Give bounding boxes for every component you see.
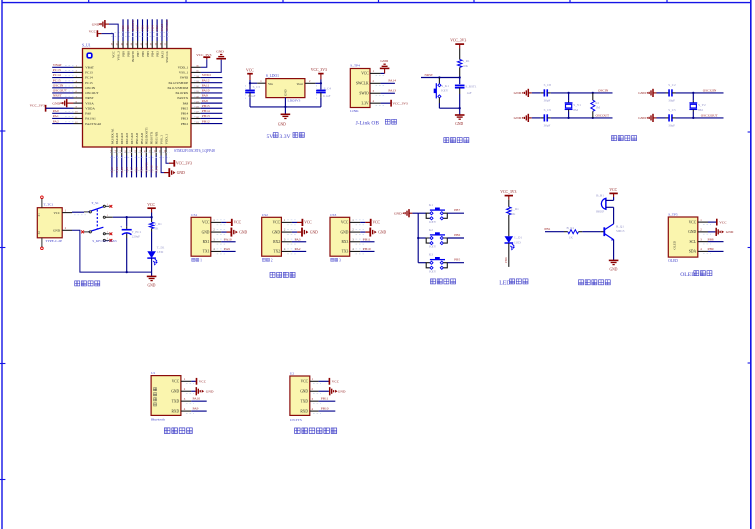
gnd power port at mcu top pin VSS_3 bbox=[92, 20, 118, 41]
svg-text:PB3: PB3 bbox=[155, 25, 159, 31]
capacitor S_C8 bbox=[532, 83, 551, 102]
vcc_3v3 power port LDO output bbox=[311, 68, 327, 83]
wire key common rail bbox=[417, 213, 419, 263]
svg-text:U2: U2 bbox=[290, 372, 294, 376]
svg-text:GND: GND bbox=[272, 230, 280, 234]
svg-text:RX1: RX1 bbox=[203, 240, 210, 244]
svg-text:J-Link OB: J-Link OB bbox=[356, 121, 380, 127]
vcc power port LDO input bbox=[246, 69, 254, 84]
svg-text:GND: GND bbox=[514, 91, 522, 95]
svg-text:PB11: PB11 bbox=[154, 165, 158, 172]
svg-text:BOOT1: BOOT1 bbox=[144, 162, 148, 173]
svg-text:S_K1: S_K1 bbox=[441, 84, 449, 88]
svg-text:S_TP5: S_TP5 bbox=[668, 213, 678, 217]
connector CS3 bbox=[330, 213, 364, 263]
svg-text:Vout: Vout bbox=[297, 82, 303, 86]
svg-text:VSSA: VSSA bbox=[85, 101, 94, 105]
svg-text:S_C4: S_C4 bbox=[324, 86, 332, 90]
svg-text:1: 1 bbox=[200, 259, 202, 263]
svg-text:PA10: PA10 bbox=[193, 397, 201, 401]
svg-text:CS1: CS1 bbox=[191, 213, 197, 217]
svg-text:VCC_3V3: VCC_3V3 bbox=[30, 104, 45, 108]
svg-text:GND: GND bbox=[177, 171, 185, 175]
svg-text:L_R1: L_R1 bbox=[511, 207, 519, 211]
svg-text:B_R1: B_R1 bbox=[567, 226, 575, 230]
svg-text:GND: GND bbox=[147, 284, 155, 288]
svg-text:1K: 1K bbox=[154, 227, 159, 231]
svg-text:GND: GND bbox=[239, 230, 247, 234]
capacitor S_C4 0.1uF bbox=[316, 83, 331, 107]
svg-text:PA3: PA3 bbox=[110, 167, 114, 173]
gnd power port oled pin2 bbox=[708, 228, 734, 236]
wire PA2 CS2 pin4 bbox=[292, 247, 306, 251]
svg-text:VCC: VCC bbox=[172, 380, 180, 384]
svg-text:PA3: PA3 bbox=[295, 237, 301, 241]
buzzer B_B1 BEEP bbox=[596, 194, 613, 214]
resistor R2 1M bbox=[591, 93, 600, 118]
gnd power port bluetooth pin2 bbox=[191, 387, 214, 395]
wire typec vcc to switch bbox=[72, 212, 89, 215]
svg-text:VSS_1: VSS_1 bbox=[160, 135, 164, 145]
connector T_TC1 TYPE-C bbox=[37, 196, 72, 250]
svg-text:NRST: NRST bbox=[425, 73, 433, 77]
connector U2 voice bbox=[290, 372, 321, 422]
mcu top net wires bbox=[111, 19, 170, 41]
svg-text:3.3V: 3.3V bbox=[362, 101, 369, 105]
wire PB10 CS3 pin4 bbox=[360, 247, 374, 251]
wire typec gnd to ground rail bbox=[72, 230, 152, 273]
svg-text:KEY: KEY bbox=[429, 245, 437, 249]
svg-text:OSCIN: OSCIN bbox=[85, 86, 96, 90]
pushbutton K1 KEY bbox=[418, 203, 464, 224]
crystal S_Y2 8M bbox=[689, 93, 706, 118]
svg-text:PB0: PB0 bbox=[135, 167, 139, 173]
svg-text:VCC: VCC bbox=[301, 380, 309, 384]
svg-text:B_B1: B_B1 bbox=[596, 194, 604, 198]
mcu left net wires bbox=[52, 63, 73, 124]
mcu U1 pins and pin numbers bbox=[74, 41, 201, 156]
svg-text:VCC: VCC bbox=[361, 72, 369, 76]
svg-text:VCC_3V3: VCC_3V3 bbox=[176, 162, 192, 166]
svg-text:TXD: TXD bbox=[301, 399, 309, 403]
svg-text:VBAT: VBAT bbox=[53, 63, 63, 67]
svg-text:PA7/AD: PA7/AD bbox=[130, 133, 134, 145]
svg-text:CS2: CS2 bbox=[262, 213, 268, 217]
svg-text:PB2/BOOT1: PB2/BOOT1 bbox=[145, 127, 149, 145]
wire OSC32IN bbox=[676, 88, 724, 94]
svg-text:VCC: VCC bbox=[689, 220, 697, 224]
gnd power port CS3 pin2 bbox=[360, 228, 386, 237]
svg-text:GND: GND bbox=[171, 390, 179, 394]
svg-text:PA4/AD: PA4/AD bbox=[115, 133, 119, 145]
mcu right net wires bbox=[194, 73, 222, 123]
svg-text:RXD: RXD bbox=[300, 409, 308, 413]
svg-text:SWCLK: SWCLK bbox=[356, 82, 369, 86]
svg-text:VCC: VCC bbox=[53, 211, 60, 215]
wire PA9 bluetooth pin4 bbox=[191, 406, 207, 411]
svg-text:OSCOUT: OSCOUT bbox=[53, 89, 68, 93]
wire PB10 voice pin4 bbox=[319, 406, 336, 411]
vcc_3v3 power port reset bbox=[450, 38, 466, 48]
svg-text:PA10: PA10 bbox=[202, 89, 210, 93]
svg-text:PB6: PB6 bbox=[141, 51, 145, 57]
wire OSCOUT bbox=[551, 113, 613, 119]
wire OSC32OUT bbox=[676, 113, 724, 119]
svg-text:PB1/AD: PB1/AD bbox=[140, 132, 144, 144]
svg-text:L_D1: L_D1 bbox=[514, 236, 522, 240]
svg-text:PC13: PC13 bbox=[85, 71, 93, 75]
svg-text:LED: LED bbox=[499, 280, 510, 286]
svg-text:TX3: TX3 bbox=[342, 250, 349, 254]
gnd power port J-Link pin1 bbox=[380, 59, 390, 73]
resistor B_R1 1K bbox=[564, 226, 600, 239]
svg-text:GND: GND bbox=[726, 230, 734, 234]
svg-text:PC13: PC13 bbox=[53, 68, 61, 72]
svg-text:PA0: PA0 bbox=[85, 112, 91, 116]
svg-text:OSC32IN: OSC32IN bbox=[703, 88, 717, 92]
svg-text:PB15: PB15 bbox=[202, 104, 210, 108]
svg-text:PC15: PC15 bbox=[85, 81, 93, 85]
svg-text:T_TC1: T_TC1 bbox=[44, 203, 54, 207]
svg-text:PB9: PB9 bbox=[121, 25, 125, 31]
connector S_TP4 J-Link bbox=[350, 64, 384, 113]
svg-text:SWIO: SWIO bbox=[359, 92, 369, 96]
svg-text:+: + bbox=[120, 225, 122, 229]
wire led net PB0 bbox=[504, 243, 509, 267]
svg-text:PB7: PB7 bbox=[136, 25, 140, 31]
svg-text:PA6: PA6 bbox=[125, 167, 129, 173]
vcc power port voice pin1 bbox=[319, 378, 340, 385]
svg-text:VCC: VCC bbox=[332, 380, 340, 384]
svg-text:VCC: VCC bbox=[609, 188, 617, 192]
svg-text:PB14: PB14 bbox=[202, 109, 210, 113]
wire PB11 CS3 pin3 bbox=[360, 237, 374, 241]
gnd power port crystal cap bottom bbox=[514, 114, 532, 122]
regulator U S_LDO1 bbox=[266, 74, 305, 102]
title led circuit bbox=[499, 279, 528, 286]
wire PA13 J-Link pin3 bbox=[381, 88, 397, 93]
svg-text:PA1: PA1 bbox=[53, 114, 59, 118]
capacitor T_EC1 220uF polarized bbox=[120, 217, 141, 272]
switch T_S1 bbox=[81, 201, 117, 243]
svg-text:RX3: RX3 bbox=[342, 240, 349, 244]
gnd power port crystal cap top bbox=[638, 89, 656, 97]
svg-text:PA6/AD: PA6/AD bbox=[125, 133, 129, 145]
vcc_3v3 power port J-Link pin4 bbox=[381, 100, 408, 107]
svg-text:OLED: OLED bbox=[680, 272, 695, 278]
svg-text:1M: 1M bbox=[595, 106, 600, 110]
svg-text:VCC: VCC bbox=[112, 50, 116, 58]
svg-text:BEEP: BEEP bbox=[596, 210, 604, 214]
connector CS1 bbox=[191, 213, 225, 263]
wire PA14 J-Link pin2 bbox=[381, 78, 397, 83]
svg-text:VCC: VCC bbox=[234, 221, 242, 225]
mcu U1 pin names bbox=[85, 50, 189, 144]
svg-text:PB1: PB1 bbox=[140, 167, 144, 173]
svg-text:8M: 8M bbox=[573, 108, 578, 112]
svg-text:GND: GND bbox=[378, 230, 386, 234]
svg-text:S_C3: S_C3 bbox=[253, 85, 261, 89]
svg-text:2: 2 bbox=[271, 259, 273, 263]
svg-text:GND: GND bbox=[52, 101, 60, 105]
gnd power port at mcu pin VSS_1 right bbox=[201, 50, 226, 73]
resistor S_R1 10K bbox=[458, 49, 470, 78]
title 5V to 3.3V circuit bbox=[267, 133, 305, 140]
svg-text:VCC: VCC bbox=[719, 220, 727, 224]
svg-text:PB3: PB3 bbox=[156, 51, 160, 57]
svg-text:PB13: PB13 bbox=[181, 117, 189, 121]
svg-text:VCC_3V3: VCC_3V3 bbox=[393, 101, 408, 105]
svg-text:PA1/A1: PA1/A1 bbox=[85, 117, 96, 121]
svg-text:PA9: PA9 bbox=[202, 94, 208, 98]
svg-text:PB4: PB4 bbox=[151, 51, 155, 57]
wire OSCIN bbox=[551, 88, 613, 94]
svg-text:0.1uF: 0.1uF bbox=[248, 94, 256, 98]
title serial circuit bbox=[270, 272, 295, 277]
gnd power port crystal cap bottom bbox=[638, 114, 656, 122]
svg-text:VCC: VCC bbox=[373, 221, 381, 225]
svg-text:LINK: LINK bbox=[350, 109, 359, 113]
svg-text:10K: 10K bbox=[462, 64, 468, 68]
svg-text:PA8: PA8 bbox=[183, 101, 189, 105]
svg-text:K1: K1 bbox=[429, 203, 433, 207]
svg-text:Vin: Vin bbox=[268, 82, 273, 86]
gnd power port buzzer bbox=[609, 260, 619, 271]
svg-text:PA7: PA7 bbox=[130, 167, 134, 173]
title buzzer circuit bbox=[579, 280, 611, 285]
svg-text:CS3: CS3 bbox=[330, 213, 336, 217]
svg-text:VCC: VCC bbox=[199, 380, 207, 384]
svg-text:GND: GND bbox=[514, 116, 522, 120]
title reset circuit bbox=[444, 138, 469, 143]
svg-text:S_Y1: S_Y1 bbox=[573, 103, 581, 107]
svg-text:PA10: PA10 bbox=[224, 237, 232, 241]
wire PB11 voice pin3 bbox=[319, 397, 336, 402]
wire PA9 CS1 pin4 bbox=[221, 247, 235, 251]
svg-text:VCC: VCC bbox=[304, 221, 312, 225]
svg-text:PB6: PB6 bbox=[454, 233, 460, 237]
wire NRST bbox=[421, 73, 461, 79]
svg-text:OSCOUT: OSCOUT bbox=[596, 113, 610, 117]
svg-text:PB7: PB7 bbox=[454, 208, 460, 212]
svg-text:PB10: PB10 bbox=[363, 247, 371, 251]
mcu U1 STM32F103C8T6 body bbox=[82, 43, 215, 153]
svg-text:PB7: PB7 bbox=[136, 51, 140, 57]
svg-text:OLED: OLED bbox=[668, 259, 678, 263]
svg-text:PA13: PA13 bbox=[388, 88, 396, 92]
gnd power port CS2 pin2 bbox=[292, 228, 318, 237]
svg-text:T_EC1: T_EC1 bbox=[132, 230, 142, 234]
svg-text:GND: GND bbox=[688, 230, 696, 234]
svg-text:KEY: KEY bbox=[441, 89, 449, 93]
svg-text:PB12: PB12 bbox=[202, 119, 210, 123]
svg-text:VCC: VCC bbox=[273, 221, 281, 225]
svg-text:LED: LED bbox=[157, 250, 164, 254]
wire LDO ground rail bbox=[250, 98, 321, 115]
svg-text:Bluetooth: Bluetooth bbox=[151, 418, 165, 422]
svg-text:1K: 1K bbox=[511, 212, 516, 216]
svg-text:PA0: PA0 bbox=[53, 109, 59, 113]
svg-text:PB5: PB5 bbox=[454, 258, 460, 262]
title J-Link OB port bbox=[356, 119, 397, 126]
wire PB9 oled pin4 bbox=[708, 247, 724, 251]
svg-text:VBAT: VBAT bbox=[85, 66, 94, 70]
svg-text:PA11: PA11 bbox=[202, 83, 210, 87]
svg-text:PB0/AD: PB0/AD bbox=[135, 132, 139, 144]
svg-text:S_TP4: S_TP4 bbox=[350, 64, 360, 68]
gnd power port power circuit bbox=[147, 272, 157, 287]
svg-text:U1: U1 bbox=[151, 371, 155, 375]
svg-text:KEY: KEY bbox=[429, 269, 437, 273]
svg-text:30pF: 30pF bbox=[544, 98, 551, 102]
svg-text:0.1uF: 0.1uF bbox=[323, 94, 331, 98]
svg-text:GND: GND bbox=[92, 22, 100, 26]
svg-text:PB13: PB13 bbox=[202, 114, 210, 118]
svg-text:LED: LED bbox=[514, 240, 521, 244]
svg-text:GND: GND bbox=[278, 122, 286, 126]
svg-text:PA9: PA9 bbox=[193, 406, 199, 410]
crystal S_Y1 8M bbox=[565, 93, 582, 118]
svg-text:SWCLK: SWCLK bbox=[165, 50, 169, 62]
vcc power port CS2 pin1 bbox=[292, 219, 312, 226]
gnd power port keys bbox=[394, 209, 418, 217]
svg-text:S_KF1 DCF-XX3: S_KF1 DCF-XX3 bbox=[92, 239, 116, 243]
gnd power port CS1 pin2 bbox=[221, 228, 247, 237]
title crystal circuit bbox=[612, 136, 637, 141]
svg-text:BOOT0: BOOT0 bbox=[131, 51, 135, 62]
svg-text:PA12/USB/DP: PA12/USB/DP bbox=[169, 81, 189, 85]
svg-text:S_Y2: S_Y2 bbox=[698, 103, 706, 107]
svg-text:B_Q1: B_Q1 bbox=[616, 224, 624, 228]
vcc power port CS1 pin1 bbox=[221, 219, 241, 226]
svg-text:S_LDO1: S_LDO1 bbox=[266, 74, 279, 78]
svg-text:PA8: PA8 bbox=[202, 99, 208, 103]
gnd power port LDO bbox=[278, 114, 290, 126]
svg-text:VDDA: VDDA bbox=[85, 106, 95, 110]
title voice broadcast module bbox=[295, 428, 337, 434]
svg-text:BOOT0: BOOT0 bbox=[131, 20, 135, 31]
svg-text:PA2: PA2 bbox=[295, 247, 301, 251]
wire PA10 CS1 pin3 bbox=[221, 237, 235, 241]
svg-text:VCC_3V3: VCC_3V3 bbox=[500, 190, 516, 194]
svg-text:S_C9: S_C9 bbox=[544, 108, 552, 112]
svg-text:PC14: PC14 bbox=[53, 73, 61, 77]
capacitor S_RST1 1uF bbox=[455, 78, 477, 109]
svg-text:3.3V: 3.3V bbox=[280, 134, 291, 140]
svg-text:SWIO: SWIO bbox=[202, 73, 211, 77]
svg-text:30pF: 30pF bbox=[668, 98, 675, 102]
svg-text:VCC: VCC bbox=[341, 221, 349, 225]
title bluetooth module bbox=[164, 428, 192, 434]
title key circuit bbox=[431, 279, 456, 284]
gnd power port reset bbox=[455, 115, 465, 126]
vcc power port bluetooth pin1 bbox=[191, 378, 207, 385]
svg-text:S_C2: S_C2 bbox=[668, 83, 676, 87]
resistor L_R1 1K bbox=[507, 200, 520, 236]
svg-text:STM32F103C8T6_LQFP48: STM32F103C8T6_LQFP48 bbox=[174, 149, 215, 153]
svg-text:PA5/AD: PA5/AD bbox=[120, 133, 124, 145]
svg-text:VCC: VCC bbox=[246, 69, 254, 73]
svg-text:TX2: TX2 bbox=[273, 250, 280, 254]
vcc_3v3 power port at mcu bottom pin VDD_1 bbox=[166, 156, 192, 167]
svg-text:OLED: OLED bbox=[673, 240, 677, 249]
svg-text:OSCOUT: OSCOUT bbox=[85, 91, 98, 95]
svg-text:T_D1: T_D1 bbox=[157, 246, 165, 250]
svg-text:PB11: PB11 bbox=[363, 237, 371, 241]
svg-text:PA9/TX: PA9/TX bbox=[177, 96, 188, 100]
svg-text:PB8: PB8 bbox=[708, 237, 714, 241]
svg-text:PB1: PB1 bbox=[544, 227, 550, 231]
svg-text:PB9: PB9 bbox=[121, 51, 125, 57]
svg-text:VCC_3V3: VCC_3V3 bbox=[196, 53, 211, 57]
svg-text:S_R1: S_R1 bbox=[462, 59, 470, 63]
svg-text:PB11/RX: PB11/RX bbox=[155, 131, 159, 144]
svg-text:LDO3V3: LDO3V3 bbox=[288, 99, 301, 103]
svg-text:K3: K3 bbox=[429, 253, 433, 257]
connector S_TP5 OLED bbox=[668, 213, 711, 263]
vcc_3v3 power port at mcu pin VDDA bbox=[30, 104, 74, 112]
svg-text:OSC32OUT: OSC32OUT bbox=[701, 113, 719, 117]
connector U1 bluetooth bbox=[151, 371, 194, 421]
svg-text:GND: GND bbox=[338, 390, 346, 394]
svg-text:T_S1: T_S1 bbox=[91, 201, 99, 205]
svg-text:PB8: PB8 bbox=[126, 51, 130, 57]
svg-text:GND: GND bbox=[206, 390, 214, 394]
svg-text:S_U1: S_U1 bbox=[82, 43, 91, 47]
svg-text:GND: GND bbox=[53, 229, 61, 233]
svg-text:VSS_1: VSS_1 bbox=[179, 71, 189, 75]
mcu bottom net wires bbox=[110, 153, 170, 178]
vcc power port buzzer bbox=[609, 188, 617, 200]
svg-text:SWCLK: SWCLK bbox=[165, 19, 169, 31]
svg-text:PA5: PA5 bbox=[120, 167, 124, 173]
svg-text:GND: GND bbox=[216, 50, 224, 54]
svg-text:8M: 8M bbox=[698, 108, 703, 112]
svg-text:TX1: TX1 bbox=[203, 250, 210, 254]
wire PA3 CS2 pin3 bbox=[292, 237, 306, 241]
svg-text:OSCIN: OSCIN bbox=[598, 88, 609, 92]
svg-text:SDA: SDA bbox=[689, 250, 697, 254]
pushbutton K2 KEY bbox=[418, 228, 464, 249]
svg-text:VCC_3V3: VCC_3V3 bbox=[450, 38, 466, 42]
svg-text:S9013: S9013 bbox=[616, 229, 625, 233]
svg-text:S_RST1: S_RST1 bbox=[465, 85, 477, 89]
vcc power port oled pin1 bbox=[708, 219, 727, 226]
pushbutton K3 KEY bbox=[418, 253, 464, 274]
svg-text:RXD: RXD bbox=[172, 409, 180, 413]
wire LDO pin2 to output node bbox=[305, 80, 322, 85]
svg-text:PB6: PB6 bbox=[141, 25, 145, 31]
svg-text:GND: GND bbox=[609, 268, 617, 272]
svg-text:GND: GND bbox=[394, 211, 402, 215]
svg-text:RX2: RX2 bbox=[273, 240, 280, 244]
svg-text:KEY: KEY bbox=[429, 220, 437, 224]
svg-text:1K: 1K bbox=[569, 235, 574, 239]
svg-text:PC15: PC15 bbox=[53, 78, 61, 82]
svg-text:30pF: 30pF bbox=[668, 123, 675, 127]
svg-text:S_C8: S_C8 bbox=[544, 83, 552, 87]
svg-text:1uF: 1uF bbox=[467, 91, 472, 95]
svg-text:PB5: PB5 bbox=[145, 25, 149, 31]
svg-text:PB11: PB11 bbox=[321, 397, 329, 401]
led L_D1 bbox=[505, 236, 523, 251]
svg-text:GND: GND bbox=[380, 59, 388, 63]
svg-text:PB15: PB15 bbox=[181, 106, 189, 110]
svg-text:PA15: PA15 bbox=[160, 23, 164, 30]
svg-text:PB4: PB4 bbox=[150, 25, 154, 31]
vcc_3v3 power port led bbox=[500, 190, 516, 200]
capacitor S_C5 bbox=[657, 108, 676, 127]
